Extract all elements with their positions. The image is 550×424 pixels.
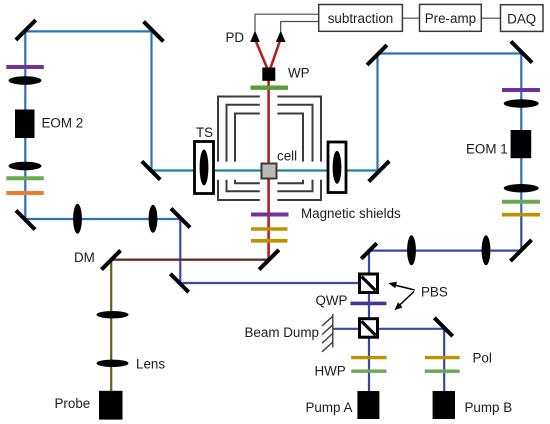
mirror M11 above PBS1 — [360, 242, 378, 260]
wire PD right to subtraction — [281, 22, 319, 32]
waveplate purple right column — [502, 88, 540, 92]
wire blue vertical M2-M3 — [150, 32, 152, 171]
wire indigo vertical M12 to Pump B — [443, 328, 445, 392]
mirror M3 mid-left — [140, 160, 161, 181]
svg-text:PBS: PBS — [421, 285, 448, 300]
lens bottom-left beam 1 — [73, 204, 82, 234]
wire olive probe vertical — [110, 260, 112, 391]
svg-text:HWP: HWP — [315, 364, 346, 379]
wire indigo vertical M4-M5 — [179, 218, 181, 283]
shield inner square — [235, 114, 303, 184]
PBS cube 2 — [360, 319, 378, 338]
PBS arrow upper — [388, 282, 414, 290]
cell (vapor cell) — [262, 164, 277, 179]
subtraction box — [319, 5, 403, 32]
svg-text:QWP: QWP — [316, 293, 348, 308]
svg-text:Pump A: Pump A — [306, 400, 353, 415]
wire blue right column vertical — [520, 54, 522, 217]
waveplate orange left column — [6, 191, 44, 195]
svg-text:PD: PD — [226, 30, 245, 45]
svg-text:cell: cell — [277, 149, 297, 164]
wire indigo right column lower segment — [520, 216, 522, 251]
waveplate purple below shields — [251, 213, 289, 217]
waveplate QWP purple — [350, 302, 386, 306]
waveplate green left column — [6, 176, 44, 180]
lens pump beam left — [407, 235, 416, 265]
svg-text:subtraction: subtraction — [328, 11, 394, 26]
Pump A laser body — [357, 391, 379, 419]
waveplate HWP dark-yellow — [351, 356, 386, 359]
waveplate dark-yellow right column — [502, 213, 540, 217]
lens probe path lower (Lens) — [97, 360, 129, 367]
mirror M8 top-middle — [366, 44, 389, 67]
EOM 1 body — [511, 130, 532, 158]
waveplate green right column — [502, 200, 540, 204]
lens right column upper — [504, 99, 539, 107]
Pump B laser body — [433, 391, 455, 419]
waveplate Pol green — [425, 370, 460, 373]
wire indigo vertical PBS column to Pump A — [368, 251, 370, 391]
mirror M7 right of shields — [367, 160, 390, 183]
wire blue top-right horizontal — [378, 52, 522, 54]
mirror M4 — [170, 207, 192, 229]
DAQ box — [501, 5, 544, 32]
Pre-amp box — [420, 4, 482, 31]
svg-text:EOM 2: EOM 2 — [42, 116, 84, 131]
shield middle square — [227, 105, 313, 192]
PBS arrow lower — [395, 292, 415, 311]
wire blue vertical M7-M8 — [376, 54, 378, 172]
wire teal through cell — [152, 169, 378, 171]
PBS cube 1 — [360, 274, 378, 293]
WP Wollaston prism body — [262, 68, 275, 81]
mirror M1 top-left — [14, 19, 37, 42]
photodiode PD right triangle — [276, 31, 286, 43]
TS translation stage left — [195, 142, 214, 194]
svg-text:DM: DM — [74, 250, 95, 265]
mirror M5 — [169, 272, 190, 293]
waveplate dark-yellow below shields 2 — [251, 239, 288, 243]
svg-text:TS: TS — [196, 125, 213, 140]
mirror M9 top-right — [509, 40, 533, 64]
wire maroon DM to mirror — [111, 259, 268, 261]
svg-text:WP: WP — [288, 66, 310, 81]
lens pump beam right — [482, 235, 491, 265]
mirror M13 bottom-left corner — [15, 209, 37, 231]
waveplate green above shields — [251, 85, 289, 89]
mirror M2 top-middle-left — [142, 20, 165, 43]
wire red V left to PD — [256, 42, 267, 69]
photodiode PD left triangle — [250, 31, 260, 43]
lens probe path upper — [97, 311, 129, 318]
waveplate purple left column — [6, 65, 44, 69]
shield outer square — [218, 97, 321, 201]
wire Pre-amp to DAQ — [481, 17, 500, 19]
waveplate Pol dark-yellow — [425, 356, 460, 359]
waveplate HWP green — [351, 370, 386, 373]
svg-text:Magnetic shields: Magnetic shields — [301, 206, 401, 221]
svg-text:Probe: Probe — [55, 396, 91, 411]
wire indigo horizontal M10-M11 — [369, 250, 521, 252]
lens right column lower — [504, 184, 539, 192]
svg-text:Pol: Pol — [473, 351, 492, 366]
wire blue left column vertical — [24, 31, 26, 219]
wire subtraction to Pre-amp — [402, 17, 419, 19]
mirror M12 right of PBS2 — [433, 316, 454, 337]
wire blue bottom-left horizontal — [25, 218, 180, 220]
EOM 2 body — [15, 110, 35, 139]
wire red V right to PD — [270, 42, 279, 69]
dichroic mirror DM — [100, 249, 122, 271]
Probe laser body — [99, 391, 123, 420]
mirror M6 below shields — [258, 248, 281, 271]
beam dump wall — [322, 314, 333, 352]
lens bottom-left beam 2 — [149, 205, 158, 233]
wire PD left to subtraction — [255, 14, 319, 31]
svg-text:Beam Dump: Beam Dump — [245, 325, 319, 340]
svg-text:DAQ: DAQ — [507, 11, 536, 26]
svg-text:EOM 1: EOM 1 — [466, 142, 508, 157]
svg-text:Pump B: Pump B — [465, 400, 513, 415]
svg-text:Lens: Lens — [136, 357, 165, 372]
wire indigo horizontal M5-PBS1 — [180, 282, 369, 284]
wire red vertical through cell — [267, 71, 270, 261]
wire blue top-left horizontal — [25, 30, 151, 32]
wire indigo horizontal beam dump - PBS2 - M12 — [333, 328, 444, 330]
lens left column upper — [9, 76, 42, 85]
lens left column lower — [9, 162, 42, 171]
mirror M10 right column bottom — [509, 238, 533, 262]
TS translation stage right — [328, 142, 346, 193]
waveplate dark-yellow below shields 1 — [251, 227, 288, 231]
svg-text:Pre-amp: Pre-amp — [425, 11, 476, 26]
